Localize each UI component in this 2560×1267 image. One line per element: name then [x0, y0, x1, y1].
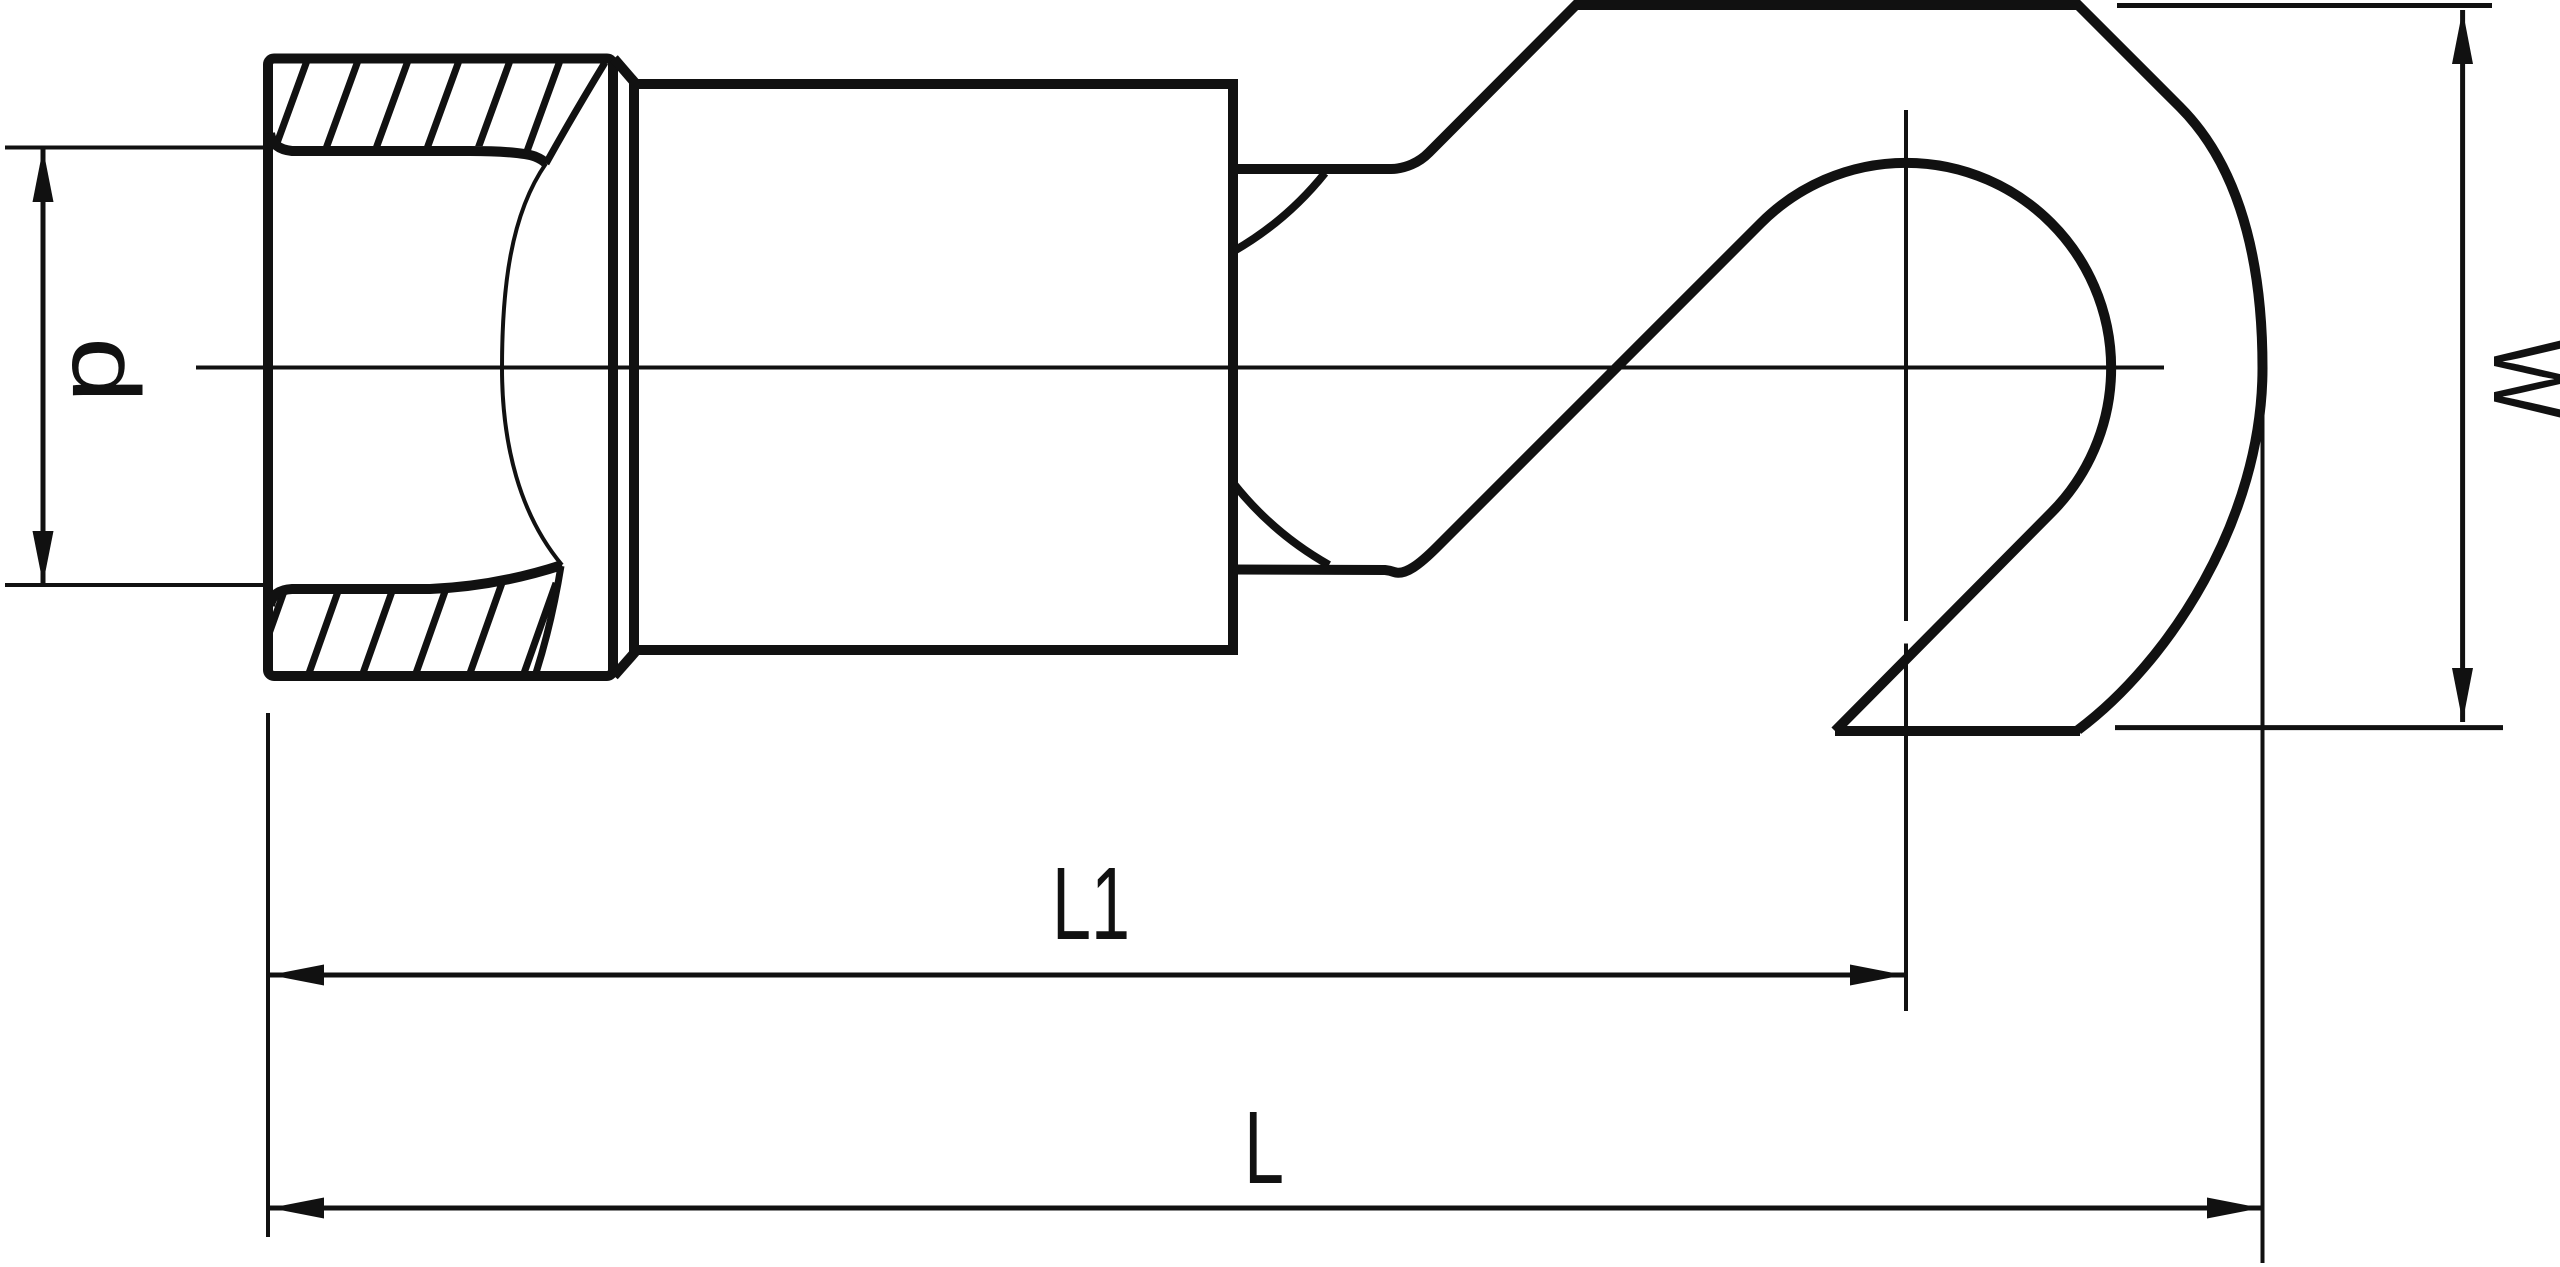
sleeve inner top line — [270, 133, 546, 164]
L arrow left — [270, 1198, 324, 1219]
W arrow down — [2452, 668, 2473, 722]
dimension L line — [270, 1206, 2261, 1211]
hook inner outline: diagonal, semicircle, diagonal, step — [1233, 163, 2111, 731]
svg-text:L1: L1 — [1052, 846, 1130, 961]
hook bottom line — [1835, 726, 2080, 736]
hatch bottom band — [254, 583, 610, 676]
L1 arrow left — [270, 965, 324, 986]
d arrow up — [33, 149, 54, 203]
L arrow right — [2207, 1198, 2261, 1219]
dimension W line — [2460, 10, 2465, 722]
insulation sleeve outline — [268, 59, 613, 677]
svg-text:L: L — [1244, 1090, 1284, 1205]
dimension L1 line — [270, 973, 1904, 978]
chamfer top sleeve to barrel — [614, 59, 636, 85]
hook upper outline: step, fillet, 45 diagonal, flat top, chamfer, outer arc — [1233, 5, 2263, 730]
dimension d line — [41, 148, 46, 586]
L1 arrow right — [1850, 965, 1904, 986]
conductor arc bottom — [1234, 484, 1329, 565]
funnel edge bottom — [536, 566, 561, 673]
dimension W extension lines — [2115, 6, 2503, 728]
svg-text:d: d — [52, 337, 159, 403]
dimension d extension lines — [5, 148, 267, 586]
d arrow down — [33, 531, 54, 584]
wire S-curve — [502, 164, 562, 566]
hook vertical centerline — [1904, 110, 1908, 1011]
left extension line for L1 and L — [266, 713, 270, 1237]
W arrow up — [2452, 10, 2473, 64]
conductor arc top — [1234, 173, 1325, 251]
funnel edge top — [546, 63, 605, 164]
svg-text:W: W — [2472, 339, 2560, 419]
right extension vertical line — [2261, 368, 2265, 1263]
hatch top band — [218, 58, 612, 165]
barrel rectangle — [634, 84, 1233, 650]
sleeve inner bottom line — [270, 565, 562, 606]
chamfer bottom sleeve to barrel — [614, 651, 636, 676]
centerline horizontal — [196, 366, 2164, 370]
